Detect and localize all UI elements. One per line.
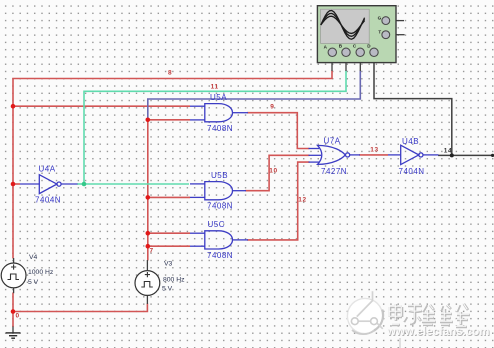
svg-text:U4A: U4A bbox=[39, 165, 56, 174]
scope knob B bbox=[342, 48, 350, 56]
and-gate U5C 7408N bbox=[205, 231, 233, 249]
svg-text:www.elecfans.com: www.elecfans.com bbox=[386, 326, 489, 338]
svg-text:G: G bbox=[378, 15, 382, 20]
svg-text:12: 12 bbox=[298, 197, 306, 204]
svg-text:U4B: U4B bbox=[402, 137, 419, 146]
svg-text:800 Hz: 800 Hz bbox=[163, 276, 185, 283]
svg-text:7404N: 7404N bbox=[35, 196, 61, 205]
scope knob D bbox=[370, 48, 378, 56]
svg-text:13: 13 bbox=[370, 147, 378, 154]
op U4A inverter 7404N bbox=[39, 175, 61, 194]
svg-text:7427N: 7427N bbox=[321, 167, 347, 176]
svg-text:T: T bbox=[378, 29, 381, 34]
svg-text:7408N: 7408N bbox=[207, 251, 233, 260]
junction net8 to U5A in1 bbox=[11, 104, 16, 109]
svg-text:7408N: 7408N bbox=[207, 202, 233, 211]
scope knob G bbox=[382, 17, 390, 25]
svg-text:9: 9 bbox=[270, 104, 274, 111]
ground bbox=[6, 333, 21, 338]
svg-text:V3: V3 bbox=[164, 261, 173, 268]
oscilloscope XSC bbox=[317, 6, 396, 63]
wire net12 U5C out to U7A in3 bbox=[247, 162, 310, 240]
op U4B inverter 7404N bbox=[401, 145, 423, 164]
nor-gate U7A 7427N bbox=[318, 145, 350, 164]
and-gate U5A 7408N bbox=[205, 104, 233, 122]
junction net7 to U5A in2 bbox=[146, 118, 151, 123]
junction dot green U4A out bbox=[82, 182, 87, 187]
source V3 clock 800Hz bbox=[135, 271, 160, 296]
wire net7 V3 vertical bbox=[148, 120, 190, 261]
svg-text:8: 8 bbox=[168, 70, 172, 77]
junction net7 to U5B in2 bbox=[146, 195, 151, 200]
wire net0 ground bottom bbox=[13, 293, 147, 328]
and-gate U5B 7408N bbox=[205, 182, 233, 200]
wire net7 scope C blue bbox=[148, 71, 360, 120]
svg-text:U5B: U5B bbox=[211, 171, 228, 180]
junction net8 to U4A input bbox=[11, 182, 16, 187]
wire net11 green U4A out to scope B and U5B bbox=[77, 71, 346, 185]
terminal dot net14 end bbox=[491, 154, 494, 157]
watermark logo elecfans bbox=[347, 291, 400, 348]
svg-text:V4: V4 bbox=[29, 254, 38, 261]
source V4 clock 1000Hz bbox=[1, 263, 26, 288]
watermark chinese text bbox=[390, 304, 470, 327]
wire net14 scope D black bbox=[374, 57, 493, 155]
svg-text:7: 7 bbox=[150, 248, 154, 255]
svg-text:U5C: U5C bbox=[208, 220, 226, 229]
scope knob C bbox=[356, 48, 364, 56]
svg-text:7408N: 7408N bbox=[207, 124, 233, 133]
gate pin stubs blue bbox=[20, 106, 439, 246]
wire scope pin stubs bbox=[13, 21, 405, 333]
svg-text:5 V: 5 V bbox=[28, 279, 39, 286]
junction dot black net14 bbox=[450, 153, 454, 157]
wire net9 U5A out to U7A in1 bbox=[247, 113, 310, 149]
scope knob T bbox=[382, 31, 390, 39]
scope knob A bbox=[328, 48, 336, 56]
wire net8 V4 top horizontal to scope A bbox=[13, 71, 332, 259]
svg-text:1000 Hz: 1000 Hz bbox=[28, 269, 54, 276]
svg-text:11: 11 bbox=[211, 83, 219, 90]
wire net13 U7A out to U4B bbox=[359, 154, 388, 156]
svg-text:10: 10 bbox=[269, 167, 277, 174]
svg-text:U7A: U7A bbox=[324, 136, 341, 145]
wire net10 U5B out to U7A in2 bbox=[245, 155, 310, 190]
junction net7 to U5C in2 bbox=[146, 244, 151, 249]
svg-text:7404N: 7404N bbox=[399, 167, 425, 176]
junction net0 V4 bottom bbox=[11, 309, 16, 314]
svg-text:0: 0 bbox=[16, 313, 20, 320]
scope waveform bbox=[321, 11, 365, 40]
svg-text:5 V: 5 V bbox=[162, 286, 173, 293]
junction net7 to U5C in1 bbox=[146, 231, 151, 236]
svg-text:U5A: U5A bbox=[210, 93, 227, 102]
svg-text:14: 14 bbox=[444, 148, 452, 155]
